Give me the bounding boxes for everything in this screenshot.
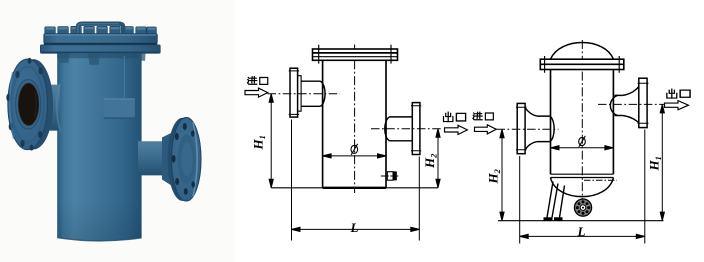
strainer photo: outlet nozzle pipe (138, 141, 166, 175)
right inlet pipe walls (537, 116, 550, 142)
middle vessel: top cover flange (313, 49, 398, 60)
middle outlet nozzle: pipe walls (390, 117, 413, 141)
strainer photo: outlet hub front shade (178, 134, 196, 184)
middle dimension L line (292, 227, 420, 231)
right dimension L line (520, 234, 645, 238)
strainer photo: shell weld seam (123, 56, 125, 98)
right outlet flange (638, 78, 649, 127)
middle vessel: vertical centre axis (354, 45, 356, 194)
right outlet expanding cone (623, 87, 639, 123)
right inlet flange (516, 103, 527, 153)
svg-text:H1: H1 (251, 135, 268, 150)
middle dimension H2 line (436, 129, 440, 188)
right inlet reducing cone (525, 108, 537, 150)
right inlet centreline (497, 128, 559, 130)
right outlet flow arrow (665, 101, 689, 110)
middle inlet nozzle: pipe walls (301, 81, 320, 106)
strainer photo: inlet nozzle pipe (36, 85, 60, 131)
right dimension L extension lines (520, 130, 645, 244)
middle drain plug (381, 171, 399, 180)
middle outlet label 出口 (443, 112, 465, 121)
right dimension phi symbol (579, 136, 586, 147)
strainer photo: inlet flange back rim (14, 59, 53, 149)
middle inlet centreline (268, 93, 341, 95)
strainer photo: outlet flange back rim (168, 118, 198, 201)
right inlet label 进口 (473, 112, 493, 120)
right vessel: support legs (547, 182, 565, 218)
strainer photo: shell top shadow under flange (57, 53, 141, 58)
middle outlet centreline (371, 128, 441, 130)
middle vessel: bottom extension lines (271, 187, 438, 189)
middle inlet nozzle: hub (298, 76, 302, 112)
strainer photo: inlet bore (18, 83, 38, 125)
strainer photo: outlet hub cone (162, 132, 173, 187)
right vessel: bottom tangent seam lines (551, 174, 614, 177)
middle vessel: shell walls (323, 60, 386, 188)
right outlet label 出口 (667, 89, 690, 98)
strainer photo: cover bolt nuts (45, 26, 157, 34)
strainer photo: cover lower plate (40, 45, 160, 53)
right outlet pipe walls (615, 95, 623, 115)
strainer photo: outlet flange disc face (172, 118, 202, 202)
middle inlet nozzle: shell junction arc (321, 81, 326, 106)
right vessel: dished bottom head (551, 178, 614, 197)
middle outlet flange (411, 103, 421, 155)
right vessel: cover bolt ticks (545, 56, 620, 73)
middle dimension H1 line (269, 94, 273, 188)
right vessel: leg foot pads (544, 217, 563, 221)
right inlet shell junction arc (550, 116, 554, 142)
middle vessel: cover bolt ticks (319, 45, 391, 64)
middle dimension phi line (323, 154, 386, 158)
strainer photo: inlet raised face ring (16, 80, 41, 130)
right vessel: tangent level centreline (584, 179, 617, 181)
right vessel: shell walls (551, 70, 614, 175)
right dimension H2 line (500, 129, 504, 220)
strainer photo: outlet flange bolt holes (172, 123, 195, 195)
middle inlet flow arrow (245, 88, 268, 97)
svg-text:L: L (350, 220, 359, 235)
right vessel: vertical centre axis (581, 40, 583, 199)
middle inlet flange (289, 68, 299, 117)
right outlet shell junction arc (610, 95, 617, 115)
strainer photo: gasket gap line (44, 43, 158, 45)
strainer photo: cover top plate (44, 34, 158, 44)
strainer photo: outlet flange edge highlight (193, 122, 197, 197)
right baseline extension (498, 220, 664, 222)
strainer photo: vessel shell (57, 53, 141, 241)
middle outlet flow arrow (445, 125, 468, 134)
right dimension phi line (551, 146, 614, 150)
strainer photo: under-flange nuts (58, 53, 146, 64)
middle inlet label 进口 (248, 77, 268, 85)
svg-text:H2: H2 (422, 153, 439, 169)
svg-text:H1: H1 (647, 156, 664, 171)
right vessel: bottom drain valve (574, 199, 591, 216)
middle vessel: shell bottom (323, 187, 386, 189)
right vessel: dished top head (551, 43, 614, 60)
right outlet centreline (598, 103, 669, 105)
right inlet flow arrow (475, 125, 497, 134)
strainer photo: inlet flange disc face (8, 59, 48, 150)
strainer photo: lifting handle (78, 24, 123, 36)
right dimension H1 line (660, 104, 664, 220)
strainer photo: inlet pipe-shell weld curve (57, 84, 61, 132)
middle dimension L extension lines (292, 120, 420, 241)
svg-text:L: L (577, 224, 586, 239)
middle outlet nozzle: shell junction arc (385, 117, 390, 141)
strainer photo: nameplate pad (104, 98, 135, 118)
svg-text:H2: H2 (486, 168, 503, 184)
photo background (0, 0, 235, 262)
strainer photo: inlet flange bolt holes (6, 58, 42, 151)
right vessel: top cover flange (540, 59, 624, 69)
middle dimension phi symbol (351, 144, 358, 155)
